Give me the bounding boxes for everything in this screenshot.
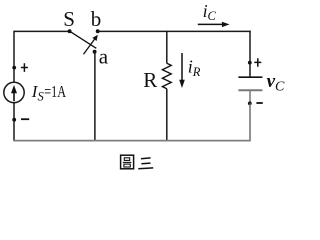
wire capacitor bottom lead (gray) <box>249 90 251 103</box>
svg-text:R: R <box>192 65 201 79</box>
node capacitor bottom dot <box>248 102 252 106</box>
current arrow iR <box>181 53 183 81</box>
switch motion arrow toward b <box>84 39 95 55</box>
wire a-branch vertical <box>94 52 96 141</box>
svg-text:C: C <box>275 80 285 95</box>
wire top-left segment <box>14 30 70 32</box>
node capacitor top dot <box>248 61 252 65</box>
node + terminal dot of source <box>12 66 16 70</box>
svg-text:b: b <box>91 7 102 31</box>
current source arrow <box>13 91 15 102</box>
label + (capacitor) <box>254 58 261 67</box>
wire left vertical upper <box>13 31 15 82</box>
wire left vertical lower <box>13 103 15 141</box>
wire resistor bottom lead <box>166 89 168 141</box>
svg-text:R: R <box>143 68 157 92</box>
svg-text:C: C <box>208 9 217 23</box>
resistor R zigzag <box>162 63 171 89</box>
wire bottom (gray) <box>13 140 250 142</box>
wire top-right segment <box>98 30 251 32</box>
svg-text:S: S <box>63 7 75 31</box>
current source IS circle <box>4 82 24 102</box>
switch node b dot <box>96 29 100 33</box>
svg-text:=1A: =1A <box>44 82 66 101</box>
capacitor bottom plate (gray) <box>238 89 262 91</box>
svg-text:a: a <box>99 45 109 69</box>
caption glyph 圖 <box>121 155 134 169</box>
current arrow iC <box>198 23 223 25</box>
wire right vertical lower (gray) <box>249 103 251 141</box>
label - (capacitor) <box>256 102 262 104</box>
switch node S dot <box>68 29 72 33</box>
switch node a dot <box>93 50 97 54</box>
label - (source bottom) <box>21 118 29 120</box>
capacitor top plate <box>238 76 262 78</box>
label + (source top) <box>21 63 28 72</box>
wire resistor top lead <box>166 31 168 64</box>
node - terminal dot of source <box>12 118 16 122</box>
wire right vertical upper <box>249 31 251 77</box>
caption glyph 三 <box>138 158 153 169</box>
switch blade S to a <box>70 31 97 48</box>
